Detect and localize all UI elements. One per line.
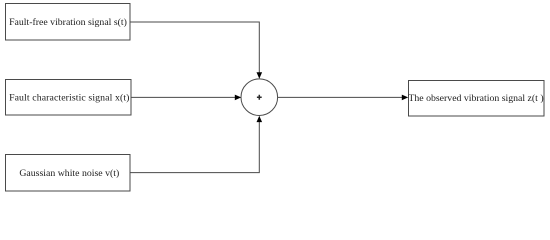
block: Fault characteristic signal x(t) xyxy=(6,80,132,116)
block: The observed vibration signal z(t) xyxy=(408,81,544,117)
wire: v(t) box to summing junction (bottom path) xyxy=(130,122,259,173)
arrowhead into bottom of summing junction xyxy=(257,116,263,122)
svg-text:The observed vibration signal: The observed vibration signal z(t ) xyxy=(408,93,543,104)
wire: x(t) box to summing junction (left path) xyxy=(131,96,236,98)
summing junction circle xyxy=(241,79,278,116)
wire: summing junction to output box xyxy=(278,96,403,98)
svg-text:Fault-free vibration signal s(: Fault-free vibration signal s(t) xyxy=(9,17,127,28)
svg-text:Fault characteristic signal x(: Fault characteristic signal x(t) xyxy=(9,93,129,104)
block: Gaussian white noise v(t) xyxy=(6,155,131,192)
arrowhead into output box xyxy=(402,95,408,101)
arrowhead into left of summing junction xyxy=(235,95,241,101)
block: Fault-free vibration signal s(t) xyxy=(6,4,131,41)
arrowhead into top of summing junction xyxy=(257,72,263,78)
svg-text:Gaussian white noise v(t): Gaussian white noise v(t) xyxy=(19,168,119,179)
wire: s(t) box to summing junction (top path) xyxy=(130,22,259,73)
